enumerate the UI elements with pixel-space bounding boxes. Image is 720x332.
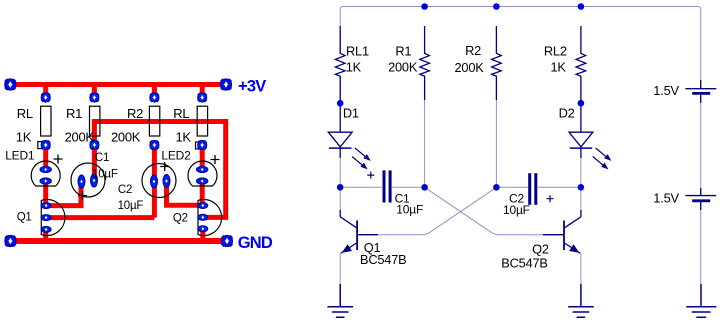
svg-text:10µF: 10µF xyxy=(503,203,530,217)
svg-text:Q2: Q2 xyxy=(532,242,549,257)
svg-text:200K: 200K xyxy=(65,130,95,145)
svg-text:10µF: 10µF xyxy=(92,169,118,181)
svg-text:GND: GND xyxy=(238,234,273,252)
svg-text:10µF: 10µF xyxy=(396,203,423,217)
svg-text:1K: 1K xyxy=(176,130,192,145)
svg-text:D1: D1 xyxy=(343,106,359,121)
svg-text:BC547B: BC547B xyxy=(360,252,406,267)
svg-text:C2: C2 xyxy=(118,184,132,196)
svg-text:200K: 200K xyxy=(455,60,485,75)
svg-text:10µF: 10µF xyxy=(118,200,144,212)
svg-text:R2: R2 xyxy=(127,106,143,121)
svg-text:1K: 1K xyxy=(346,59,362,74)
svg-text:1K: 1K xyxy=(16,130,32,145)
svg-text:R1: R1 xyxy=(66,106,82,121)
svg-text:200K: 200K xyxy=(111,130,141,145)
svg-text:R1: R1 xyxy=(395,43,411,58)
svg-text:+3V: +3V xyxy=(238,78,266,96)
svg-text:1.5V: 1.5V xyxy=(653,190,679,205)
svg-text:1K: 1K xyxy=(551,59,567,74)
svg-text:R2: R2 xyxy=(465,43,481,58)
svg-text:BC547B: BC547B xyxy=(501,255,547,270)
svg-text:RL: RL xyxy=(173,106,189,121)
svg-text:Q1: Q1 xyxy=(17,212,32,224)
svg-text:1.5V: 1.5V xyxy=(653,83,679,98)
svg-text:200K: 200K xyxy=(388,60,418,75)
svg-text:RL: RL xyxy=(17,106,33,121)
svg-text:LED2: LED2 xyxy=(161,149,191,163)
svg-text:LED1: LED1 xyxy=(5,149,35,163)
svg-text:Q2: Q2 xyxy=(173,212,188,224)
svg-text:RL2: RL2 xyxy=(544,44,567,59)
svg-text:D2: D2 xyxy=(559,106,575,121)
svg-text:RL1: RL1 xyxy=(346,43,369,58)
svg-text:C1: C1 xyxy=(95,152,109,164)
